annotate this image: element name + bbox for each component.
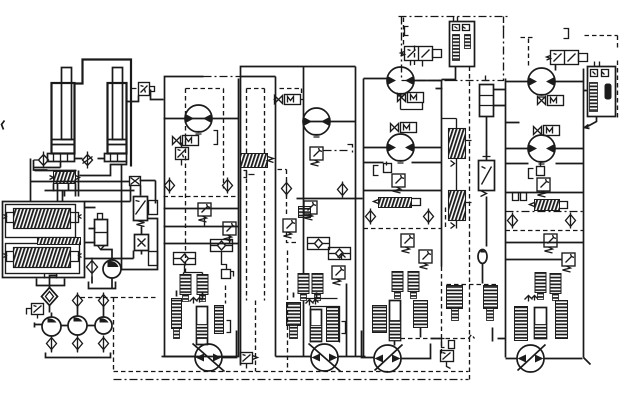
wire PR to S5 — [494, 90, 506, 106]
gauge oval — [478, 250, 487, 264]
wire center block down — [436, 67, 456, 89]
pilot cluster M4b — [391, 123, 417, 133]
pilot cluster M4a — [398, 93, 424, 103]
check box S3 b — [329, 248, 351, 260]
relief S3 a — [310, 147, 323, 166]
arrows S4 bottom — [338, 254, 346, 260]
section S5 left edge — [505, 79, 507, 358]
solid stubs y338 — [431, 338, 506, 340]
wire bank riser A — [31, 159, 58, 202]
arrows S3 bottom — [306, 300, 319, 306]
check box S1 b — [174, 253, 196, 265]
center spool valve 1 — [449, 129, 466, 159]
bracket M1 — [214, 131, 218, 145]
motor M4b — [387, 134, 414, 163]
valve S5 top — [547, 51, 588, 65]
center tall valve a — [480, 85, 494, 117]
check diamond P3 bottom — [99, 336, 109, 352]
pump S3 — [309, 344, 341, 372]
relief S4 b — [401, 234, 414, 253]
section S5 right edge — [583, 69, 585, 358]
S4 right edge dashed lower — [441, 267, 443, 357]
dashed M4a right — [431, 80, 450, 82]
check diamond S1 b — [223, 178, 233, 194]
wire S4 rail — [364, 163, 442, 191]
center spool valve 2 — [449, 191, 466, 221]
wire S4 bottom — [362, 328, 431, 359]
dash-dot top bus right — [399, 16, 509, 18]
center block cart b — [465, 35, 471, 49]
wire S5 motor2 line — [506, 123, 584, 149]
dashed vertical S4 mid — [445, 208, 447, 229]
cartridge S3 b — [312, 274, 323, 301]
dash-dot rail S5 — [506, 211, 584, 213]
wire relief stubs S1 — [185, 217, 230, 273]
pilot cluster M5a — [538, 96, 564, 106]
wire chkbox to carts — [184, 252, 227, 277]
cartridge S4 a — [392, 272, 403, 299]
relief S5 a — [537, 178, 550, 197]
relief mid — [283, 219, 296, 238]
valve bank inner frame 2 — [6, 244, 80, 274]
wire pump row — [52, 306, 104, 326]
link bar — [38, 238, 81, 245]
check diamond mid — [282, 181, 292, 197]
pilot box under M4b — [384, 164, 392, 173]
cylinder C1 rod — [62, 68, 72, 140]
wire bank outlet — [45, 274, 57, 279]
bracket above bottom valve — [442, 339, 455, 349]
dash-dot S3 pilot — [324, 145, 353, 153]
relief S5 b — [544, 234, 557, 253]
check box S1 a — [211, 240, 233, 252]
filter diamond D4 — [87, 258, 98, 277]
wire drain vertical — [121, 165, 123, 270]
center block top — [450, 22, 475, 67]
P1 shaft — [35, 323, 42, 328]
check diamond S1 a — [165, 178, 175, 194]
relief S1 b — [223, 222, 236, 241]
section S3 frame — [304, 67, 356, 357]
pump P2 — [68, 316, 87, 335]
check diamond S5 a — [508, 213, 518, 229]
cylinder C1 body — [52, 83, 75, 154]
check valve V1 — [34, 152, 49, 169]
pilot box under M5b — [537, 167, 545, 176]
motor M3 — [303, 108, 330, 137]
center valve PR — [479, 161, 495, 191]
column S1 c3 — [215, 306, 224, 334]
pilot cluster M1 — [173, 136, 199, 146]
S1 top dash-dot — [204, 76, 241, 78]
DV2 right cap — [71, 252, 82, 262]
dashes top right — [521, 38, 535, 67]
wire bank riser B — [63, 171, 79, 202]
wire S5 bottom — [506, 358, 591, 365]
column S5 c1 — [515, 307, 528, 341]
wire S1 motor line — [164, 118, 239, 120]
valve X box — [130, 177, 141, 186]
bracket S2 — [244, 171, 255, 178]
check diamond S5 b — [566, 213, 576, 229]
section S1 frame — [165, 77, 239, 357]
valve box B1 — [135, 235, 149, 251]
striped box mid — [299, 207, 311, 218]
pump S1 — [193, 344, 225, 372]
bracket under M4b — [374, 162, 387, 176]
cylinder frame — [75, 60, 132, 167]
check diamond P2 bottom — [73, 336, 83, 352]
bottom dashed vertical right — [469, 233, 471, 381]
right block cart b — [605, 84, 612, 100]
center block cart a — [453, 35, 460, 61]
valve under M1 — [176, 148, 189, 160]
wire F1 top — [50, 276, 58, 313]
column S3 c1 — [287, 303, 301, 326]
valve S4 top — [401, 47, 442, 61]
cartridge S4 b — [408, 272, 419, 299]
dashed cart link — [447, 284, 498, 286]
cylinder C2 rod — [113, 68, 123, 140]
wire right block — [584, 91, 597, 129]
column S4 c3 — [414, 301, 428, 328]
motor M4a — [387, 67, 414, 96]
bracket S3 c3 — [342, 322, 346, 334]
motor M1 — [185, 105, 212, 134]
check diamond P1 bottom — [47, 336, 57, 352]
wire into block top — [454, 17, 458, 22]
column S1 c2 — [197, 307, 208, 345]
arrows S1 bottom — [190, 298, 203, 304]
accumulator A1 — [98, 214, 103, 220]
directional valve DV1 — [14, 209, 71, 229]
wire RV1 — [122, 219, 158, 270]
port box S1 left b — [149, 252, 158, 266]
relief S3 b — [304, 201, 317, 220]
wire S3 motor line — [304, 121, 356, 123]
wire S5 rail — [506, 192, 584, 194]
pilot valve top — [139, 83, 150, 96]
check diamond P3 top — [99, 293, 109, 309]
pump P3 — [95, 317, 112, 334]
check diamond P2 top — [73, 293, 83, 309]
tank T2 — [37, 279, 65, 286]
wire S4 motor2 line — [364, 147, 442, 149]
cartridge S5 a — [535, 273, 546, 300]
wire P4 — [92, 250, 134, 290]
cartridge S3 a — [298, 274, 309, 301]
relief RV0 — [32, 304, 44, 315]
relief S5 c — [562, 253, 575, 272]
wire S1 rail2 — [164, 226, 239, 228]
DV2 left cap — [4, 252, 14, 262]
bottom dashed bus 1 — [114, 371, 469, 373]
pilot box S1 right — [222, 270, 231, 279]
cylinder C1 piston — [52, 140, 75, 145]
column S3 c2 — [311, 310, 322, 342]
cartridge S5 b — [550, 274, 561, 301]
pump P4 — [103, 260, 121, 278]
section S2 frame — [241, 67, 356, 366]
right block cart a — [590, 83, 598, 112]
DV1 left cap — [4, 213, 14, 223]
dashed stub top S4 — [404, 18, 415, 66]
arrows S5 bottom — [525, 296, 538, 302]
wire S3 rail — [297, 198, 363, 200]
pump S4 — [374, 345, 403, 373]
column S4 c2 — [390, 301, 401, 341]
wire center v — [483, 117, 493, 342]
relief S3 c — [332, 266, 345, 285]
relief S4 c — [419, 250, 432, 269]
relief S1 a — [198, 203, 211, 222]
column S4 c1 — [373, 306, 387, 333]
pilot cluster S3 feed — [275, 95, 301, 105]
wire valve to block — [595, 62, 600, 67]
right block — [588, 67, 616, 117]
wire S5 top — [506, 65, 584, 82]
S2 inner dashed — [247, 89, 302, 301]
check diamond S4 b — [424, 209, 434, 225]
section S4 right edge — [441, 81, 443, 267]
bracket right top — [564, 29, 569, 39]
wire S5 rail2 — [506, 242, 584, 244]
wire S1 rail3 — [164, 243, 239, 245]
wire M4a down — [401, 94, 423, 110]
cylinder C2 body — [108, 83, 127, 154]
wire cluster to S3 — [274, 99, 304, 101]
dashed right column — [585, 36, 618, 121]
wire cyl manifold — [34, 159, 127, 176]
bottom dashed right link — [401, 335, 475, 339]
DV1 right cap — [71, 213, 82, 223]
tank T1 — [46, 353, 111, 358]
check valve V2 — [83, 152, 93, 169]
wire S1 bottom — [162, 291, 237, 358]
valve S5 mid — [535, 200, 560, 211]
valve bank inner frame 1 — [6, 205, 76, 238]
dashed pilot mid — [278, 170, 297, 243]
wire cyl2 pilot — [127, 96, 139, 102]
filter F1 — [42, 288, 58, 306]
bracket S1 c3 — [227, 321, 231, 333]
S3 cluster box — [306, 299, 340, 343]
wire dashed pilot left — [81, 297, 114, 299]
wire S1 rail1 — [164, 208, 239, 210]
bottom valve mid — [441, 351, 454, 362]
motor M5b — [528, 135, 555, 164]
column S5 c2 — [535, 308, 547, 339]
port box S1 left a — [149, 201, 158, 215]
relief RV1 tilted — [134, 197, 148, 221]
dashed pilot rail S1 — [164, 196, 239, 198]
cylinder C2 base — [105, 154, 127, 162]
dashed center block down — [469, 67, 471, 233]
directional valve DV2 — [14, 248, 71, 268]
check box S3 a — [308, 238, 330, 250]
dashed stub right of box — [503, 23, 505, 31]
wire below balance valve — [31, 182, 135, 197]
dashed below pilot box S1 — [225, 286, 227, 304]
dashed enclosure bottom-left — [114, 298, 156, 373]
wire bank to accumulator — [85, 208, 134, 259]
pump S5 — [517, 345, 546, 373]
left margin tick — [2, 121, 5, 130]
dashed S4 pilot rail — [364, 228, 442, 230]
dashed rail S5 — [506, 230, 584, 232]
cartridge S1 a — [180, 275, 191, 302]
column S1 c1 — [172, 299, 182, 329]
valve S2 — [241, 154, 268, 168]
cylinder C1 base — [48, 154, 75, 162]
center cart low B — [484, 286, 498, 309]
wire S4 top — [364, 79, 442, 81]
wire jog to S1 — [140, 90, 164, 204]
column S5 c3 — [556, 301, 568, 339]
wire S5 rail3 — [506, 259, 563, 261]
bracket S4 top — [405, 27, 409, 36]
valve bank frame — [3, 202, 85, 278]
pilot cluster M5b — [534, 126, 560, 136]
bracket under M5b — [529, 163, 541, 179]
valve S4 mid — [379, 198, 412, 208]
port boxes S5 — [513, 193, 527, 201]
bottom dashed verticals — [256, 251, 288, 372]
center block flags — [453, 25, 470, 31]
section S4 left edge — [363, 79, 365, 357]
column S3 c3 — [327, 308, 339, 342]
center cart low A — [447, 286, 463, 309]
S1 inner dashed frame — [186, 89, 224, 281]
pump P1 — [42, 317, 61, 336]
wire suction — [52, 350, 104, 353]
cartridge S1 b — [197, 275, 208, 302]
dash-dot box center top — [402, 17, 504, 81]
cylinder C2 piston — [108, 140, 127, 145]
wire S3 bottom — [276, 284, 366, 357]
wire S5 rail163 — [506, 163, 584, 165]
relief S2 bottom — [241, 353, 253, 364]
motor M5a — [528, 68, 555, 97]
bottom dash-dot bus — [114, 379, 469, 381]
check diamond S4 a — [366, 209, 376, 225]
tank T3 — [89, 282, 116, 289]
wire valve to motor S4 — [411, 61, 423, 67]
wire bank top ext — [85, 186, 141, 202]
balance valve small — [54, 172, 76, 184]
relief S4 a — [392, 174, 405, 193]
right block flags — [591, 70, 609, 77]
check diamond S3 — [338, 182, 348, 198]
